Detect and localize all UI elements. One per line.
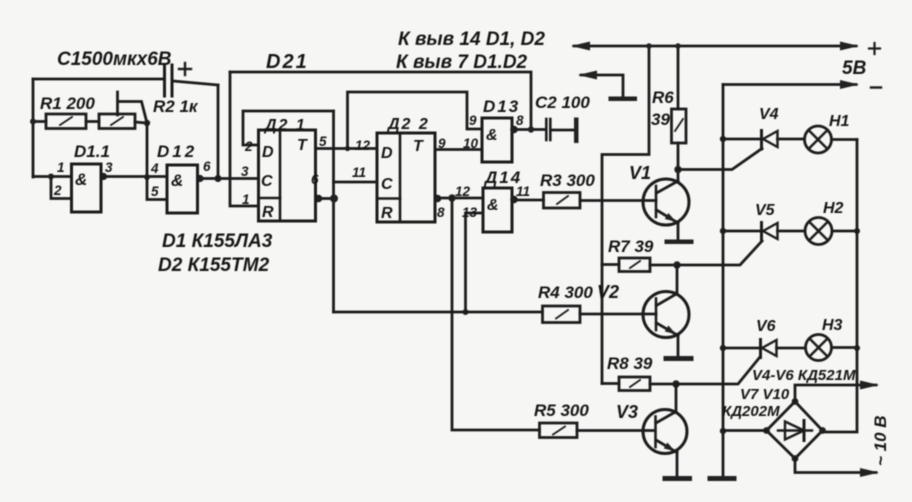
flip-flop D2.2 box [377,133,435,222]
wire V2 collector down [676,265,679,293]
wire D1.2 pin5 loop [147,177,167,200]
wire R4 row horizontal [334,311,543,314]
svg-text:V7 V10: V7 V10 [740,386,790,403]
ground bar top [609,97,638,102]
node D2.1 pin6 bubble [316,196,322,202]
svg-text:Д2 2: Д2 2 [386,116,430,133]
ground V1 bar [665,240,694,245]
wire D21 reset net: vertical x230 down to R input [230,72,259,206]
wire R8 right to V3 collector [650,383,676,386]
node arrowhead +5V right [840,42,859,51]
wire -5V rail x723 down [722,85,725,477]
svg-text:R1 200: R1 200 [40,94,95,113]
svg-text:1: 1 [242,192,250,207]
svg-text:Н3: Н3 [822,317,843,334]
svg-text:R2 1к: R2 1к [153,97,199,116]
node junction dot pin13/R4 [463,309,469,315]
wire V3 collector down [675,384,678,411]
svg-text:Т: Т [413,138,424,155]
svg-text:8: 8 [516,113,524,128]
node junction dot rail V5 [720,228,726,234]
op-amp gate D1.1 box [72,164,102,212]
wire R4 to V2 base [580,313,656,316]
node D1.1 output bubble pin3 [101,174,107,180]
diode inside bridge [778,429,812,431]
wire D2.2 pin9 output to D1.3 pin10 [435,148,482,151]
svg-text:Н2: Н2 [823,200,844,217]
capacitor C1 [165,65,173,96]
svg-text:&: & [75,170,87,189]
wire ground stub arrow [581,75,623,97]
wire R8 left [602,382,619,385]
svg-text:1: 1 [57,160,65,175]
resistor R7 [619,258,650,272]
node junction dot at x147 [144,174,150,180]
wire V1 collector to V4 diagonal [678,149,762,170]
wire C1 right plate to vertical x218 [173,81,218,85]
svg-text:4: 4 [150,161,159,176]
wire V5 to lamp H2 [778,230,806,233]
svg-text:2: 2 [244,139,253,154]
svg-text:С2 100: С2 100 [535,93,590,112]
svg-text:9: 9 [469,113,477,128]
node junction dot rail V4 [720,136,726,142]
svg-text:D1.1: D1.1 [74,142,110,161]
wire pin6 to junction [322,197,335,200]
wire V5 row from rail [723,230,760,233]
svg-text:R3 300: R3 300 [540,171,595,190]
lamp H3 [806,335,832,361]
node junction dot V1 collector [674,166,681,173]
svg-text:R7 39: R7 39 [608,237,654,256]
wire H1 to right rail [832,138,858,141]
wire D21 net horizontal to x531 [230,72,531,130]
resistor R3 [544,193,581,209]
resistor R2 [99,114,135,129]
wire R6 top feed [677,46,680,109]
svg-text:V4: V4 [759,106,779,123]
resistor R5 [540,423,578,438]
transistor V1 [643,179,689,225]
ground C2 bar [574,118,579,144]
svg-text:V2: V2 [597,282,619,302]
svg-text:R5 300: R5 300 [534,401,589,420]
ground V3 bar [663,476,693,481]
ground rail bar [708,476,737,481]
op-amp gate D1.4 box [483,188,512,232]
wire right rail [823,140,858,433]
wire D2.2 feedback rect to D1.3 pin9 [348,92,483,149]
svg-text:3: 3 [105,160,113,175]
wire Qbar vertical x333.5 down to R4 row [332,111,335,312]
svg-text:13: 13 [462,205,478,220]
svg-text:R8 39: R8 39 [607,354,653,373]
wire V2 emitter down [677,336,680,357]
node arrowhead -5V right [840,80,859,89]
wire D1.1 pin2 loop [51,177,72,199]
node junction dot Qbar2 [448,194,455,201]
node junction dot V2 collector [673,261,680,268]
node arrowhead +5V left [571,42,590,51]
svg-text:~ 10 В: ~ 10 В [871,415,890,466]
wire D2.1 pin5 output to D2.2 D input [316,147,378,150]
transistor V2 [643,292,689,338]
wire Qbar2 vertical x452 down to R5 [452,198,540,430]
wire +5V drop x649 and jog to x602 [602,46,649,384]
flip-flop D2.1 divider [279,130,282,221]
wire D2.1 feedback rect (D input to Qbar) [243,111,334,145]
svg-text:Н1: Н1 [829,113,850,130]
svg-text:12: 12 [355,138,371,153]
wire C2 to ground [552,129,575,132]
svg-text:R6: R6 [652,88,674,107]
diode V6 [759,340,762,358]
svg-text:Д2 1: Д2 1 [263,117,307,134]
node junction dot x649 top [646,43,652,49]
svg-text:С1500мкх6В: С1500мкх6В [57,49,172,70]
flip-flop D2.2 divider [399,133,402,222]
node junction dot reset net [528,126,534,132]
wire D1.3 pin8 to C2 [517,128,545,131]
svg-text:V4-V6 КД521М: V4-V6 КД521М [752,367,856,384]
node junction dot rail bridge [720,428,726,434]
svg-text:3: 3 [241,164,249,179]
svg-text:КД202М: КД202М [722,403,780,420]
wire R2 top tap stub [118,92,147,121]
wire D1.4 pin13 from R4 net [466,213,484,312]
wire pin8 to D1.4 pin12 [441,197,484,200]
svg-text:D2 К155ТМ2: D2 К155ТМ2 [158,255,270,276]
ground V2 bar [664,356,694,361]
wire D1.1 pin3 to D1.2 inputs [106,175,167,178]
svg-text:R: R [262,204,274,221]
node arrowhead gnd left [578,71,597,80]
node D1.3 output bubble pin8 [511,127,517,133]
wire R1 to R2 [86,120,99,123]
node junction dot x678 top [675,43,681,49]
wire bridge top output arrow [795,385,876,402]
wire junction down to D1.2 inputs [146,123,149,177]
node junction dot V3 collector [672,380,679,387]
wire D1.1 input pin1 [33,175,72,178]
wire H2 to right rail [832,230,857,233]
node junction dot x218 [214,175,221,182]
node junction dot Qbar1 [330,195,338,203]
svg-text:12: 12 [455,184,471,199]
wire pin11 branch to D2.2 C input [334,181,378,184]
diode V4 [760,131,763,150]
svg-text:D13: D13 [483,97,520,116]
svg-text:8: 8 [437,205,445,220]
svg-text:&: & [486,127,498,144]
wire D1.2 pin6 to D2.1 C input [203,177,259,180]
lamp H2 [805,218,832,245]
svg-text:2: 2 [53,183,62,198]
svg-text:D21: D21 [266,51,309,73]
flip-flop D2.2 R cell line [377,197,400,200]
node arrowhead bottom output [860,468,879,477]
capacitor C2 [546,119,550,140]
wire vertical x218 feedback to C1 [217,85,220,178]
wire V6 row from rail [723,347,759,350]
node D2.2 pin8 bubble [435,196,441,202]
svg-text:D12: D12 [157,142,197,161]
resistor R8 [619,377,650,391]
node junction dot feedback2 top [345,146,350,151]
lamp H1 [805,126,832,153]
op-amp gate D1.3 box [482,118,512,162]
svg-text:К выв 7 D1.D2: К выв 7 D1.D2 [396,52,528,73]
node C1 plus sign [179,63,191,75]
wire +5V power line [574,45,856,48]
svg-text:C: C [261,173,273,190]
op-amp gate D1.2 box [167,165,198,213]
svg-text:V3: V3 [616,402,638,422]
flip-flop D2.1 box [259,130,316,221]
transistor V3 [643,410,687,454]
svg-text:Т: Т [297,137,308,154]
wire R6 bottom to V1 collector [677,143,680,181]
svg-text:11: 11 [516,184,530,199]
wire V4 to lamp H1 [778,138,805,141]
wire V3 emitter down [676,453,679,477]
wire R2 right to junction [135,122,146,123]
wire -5V power line [723,83,856,86]
resistor R6 [672,109,687,143]
node minus sign right [871,86,881,88]
wire V3 collector to V6 diagonal [676,357,760,384]
resistor R1 [46,114,86,129]
svg-text:&: & [171,171,183,190]
svg-text:&: & [487,197,499,214]
svg-text:C: C [381,176,393,193]
svg-text:6: 6 [203,159,211,174]
svg-text:V1: V1 [629,163,651,183]
wire bridge left to rail [723,429,767,432]
wire V6 to lamp H3 [777,347,806,350]
wire V1 emitter down [677,223,680,240]
node junction dot R1 left [30,119,36,125]
svg-text:R: R [381,205,393,222]
svg-text:V5: V5 [755,202,776,219]
flip-flop D2.1 R cell line [259,197,281,200]
svg-text:D: D [262,144,274,161]
wire left vertical to R1 [33,120,46,123]
wire bridge bottom output arrow [795,459,876,473]
svg-text:9: 9 [438,136,446,151]
wire R7 left [602,263,619,266]
svg-text:5В: 5В [842,58,867,79]
node junction dot rail V6 [720,345,726,351]
diode V5 [760,223,763,242]
svg-text:D1 К155ЛА3: D1 К155ЛА3 [162,231,273,252]
svg-text:К выв 14 D1, D2: К выв 14 D1, D2 [398,29,545,50]
node junction R2 right [144,120,150,126]
wire R3 to V1 base [580,199,656,202]
wire V2 collector to V5 diagonal [677,241,762,265]
wire top-left rail from left vertical to C1 [33,78,163,81]
node junction dot pin1/2 [48,174,54,180]
node junction dot right rail H2 [854,228,860,234]
svg-text:5: 5 [151,184,159,199]
svg-text:D: D [381,145,393,162]
svg-text:V6: V6 [756,318,776,335]
node junction dot right rail H3 [854,345,860,351]
node arrowhead top output [860,381,879,390]
svg-text:6: 6 [311,172,319,187]
wire V4 row from rail [723,138,760,141]
node D1.2 output bubble pin6 [197,176,203,182]
bridge rectifier V7-V10 diamond [767,402,823,459]
wire R5 to V3 base [577,429,655,432]
svg-text:R4 300: R4 300 [538,283,593,302]
svg-text:5: 5 [319,134,327,149]
svg-text:10: 10 [463,136,479,151]
wire left vertical x33 [32,79,35,177]
resistor R4 [543,306,581,323]
wire H3 to right rail [832,346,858,349]
svg-text:39: 39 [651,110,670,129]
node plus sign right [869,43,880,54]
wire D1.4 pin11 to R3 [517,199,544,202]
svg-text:11: 11 [352,165,366,180]
wire R7 right to V2 collector [650,264,677,267]
node D1.4 output bubble pin11 [511,197,517,203]
